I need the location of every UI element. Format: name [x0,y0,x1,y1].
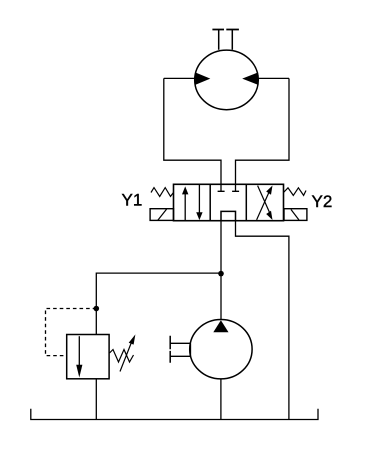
svg-text:Y1: Y1 [122,191,143,210]
svg-text:Y2: Y2 [312,192,333,211]
